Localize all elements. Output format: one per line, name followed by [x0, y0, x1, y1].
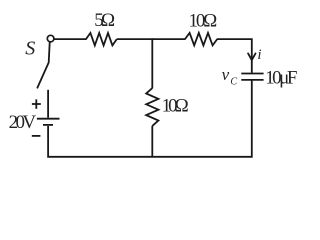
capacitor top plate: [241, 73, 263, 75]
svg-text:20V: 20V: [9, 112, 37, 133]
svg-text:5Ω: 5Ω: [94, 10, 115, 31]
wire: middle branch top (node to 10Ω): [151, 38, 153, 88]
battery minus sign: [32, 135, 41, 137]
svg-text:i: i: [257, 47, 261, 63]
wire: capacitor down, bottom wire, up to battery: [48, 80, 252, 157]
battery 20V negative plate (short): [43, 124, 53, 126]
svg-text:v: v: [222, 65, 230, 84]
wire: top left (switch to 5Ω): [54, 38, 86, 40]
switch S blade (open): [37, 42, 49, 87]
svg-text:10Ω: 10Ω: [162, 95, 189, 116]
switch S terminal circle: [47, 35, 54, 42]
battery 20V positive plate (long): [37, 118, 60, 120]
wire: top middle (5Ω to 10Ω through middle node): [117, 38, 186, 40]
capacitor bottom plate: [241, 79, 263, 81]
battery plus sign: [32, 99, 41, 108]
svg-text:S: S: [25, 38, 35, 60]
wire: middle branch bottom (10Ω to bottom wire): [151, 126, 153, 157]
wire: top right corner down to capacitor: [217, 39, 252, 73]
resistor 5Ω zigzag: [86, 33, 117, 46]
svg-text:10μF: 10μF: [265, 67, 297, 88]
svg-text:10Ω: 10Ω: [189, 11, 218, 32]
svg-text:C: C: [230, 76, 237, 87]
wire: battery to switch (left branch): [47, 90, 49, 118]
current arrow i (arrowhead): [248, 53, 255, 60]
resistor 10Ω (middle) zigzag: [146, 88, 158, 126]
resistor 10Ω (top) zigzag: [185, 33, 217, 46]
